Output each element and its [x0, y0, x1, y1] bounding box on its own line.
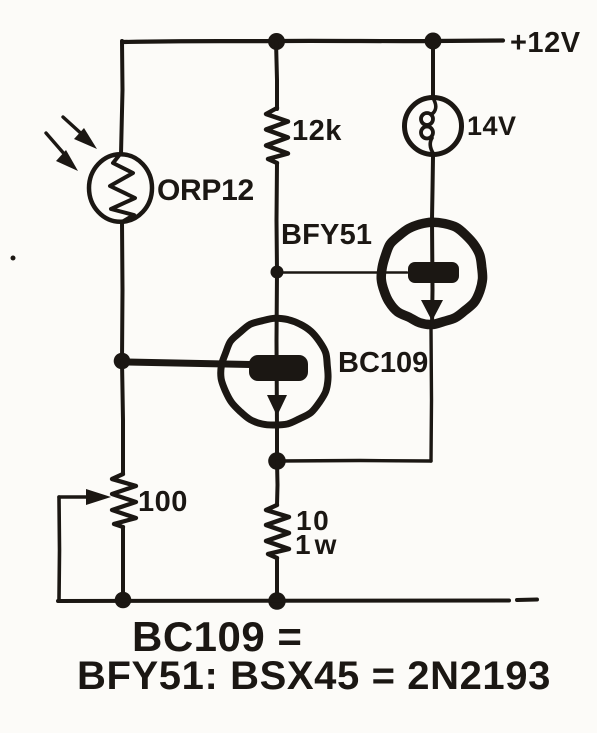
light arrow 1	[63, 117, 97, 149]
potentiometer wiper arrow	[59, 489, 111, 505]
transistor BFY51	[381, 219, 482, 327]
node ground-left junction	[115, 592, 132, 609]
wire BC109 base (thick)	[124, 362, 250, 365]
wire emitter middle	[275, 426, 279, 461]
wire left rail upper	[121, 41, 123, 154]
svg-text:BFY51: BFY51	[281, 219, 372, 251]
resistor 10 1W upper wire	[275, 461, 280, 505]
svg-text:BFY51: BSX45 = 2N2193: BFY51: BSX45 = 2N2193	[77, 654, 551, 698]
potentiometer 100 zigzag	[112, 474, 136, 527]
transistor BC109	[221, 272, 328, 430]
wire emitter link vertical	[429, 327, 433, 461]
node emitter junction	[268, 452, 286, 470]
wire right rail mid	[432, 157, 433, 219]
light arrow 2	[46, 133, 78, 171]
wire left rail lower	[122, 361, 123, 474]
wire BFY51 base	[283, 271, 407, 274]
wire middle rail upper	[276, 41, 277, 109]
svg-text:ORP12: ORP12	[157, 174, 254, 207]
resistor 12k zigzag	[266, 108, 288, 163]
resistor 10 1W zigzag	[266, 505, 289, 558]
wire +12V top rail	[123, 41, 503, 43]
node BC109 base junction	[114, 353, 131, 370]
lamp 14V body	[405, 98, 462, 155]
svg-text:BC109 =: BC109 =	[132, 613, 302, 660]
wire right rail upper	[431, 41, 435, 97]
svg-text:+12V: +12V	[510, 27, 581, 59]
lamp filament	[421, 100, 436, 153]
node BFY51 base junction	[271, 266, 284, 279]
svg-text:100: 100	[138, 486, 188, 518]
photoresistor ORP12 body	[89, 154, 152, 222]
wire left rail bottom	[121, 527, 125, 600]
resistor 10 1W lower wire	[275, 558, 279, 600]
svg-text:12k: 12k	[292, 115, 342, 147]
svg-text:1w: 1w	[295, 529, 340, 560]
wire wiper return down	[57, 497, 61, 600]
node ground-middle junction	[268, 592, 286, 610]
svg-text:14V: 14V	[467, 111, 517, 141]
node top-right junction	[425, 33, 442, 50]
wire ground rail	[58, 599, 509, 604]
node top-middle junction	[268, 33, 285, 50]
wire ground dash	[517, 598, 537, 603]
wire left rail middle	[120, 222, 125, 361]
photoresistor ORP12 zigzag	[110, 153, 135, 222]
wire middle rail mid	[275, 163, 280, 272]
wire emitter link horizontal	[277, 459, 431, 463]
stray ink dot	[11, 256, 16, 261]
svg-text:BC109: BC109	[338, 347, 428, 379]
